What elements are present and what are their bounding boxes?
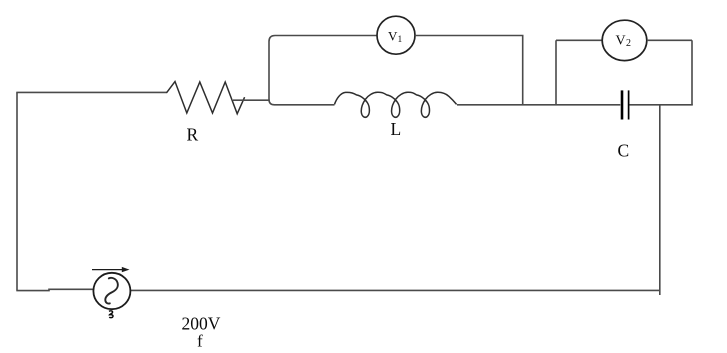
svg-text:R: R: [187, 125, 199, 145]
wire: V2 top right: [647, 39, 692, 41]
wire: V1 loop left vertical and top-left rounded corner to voltmeter: [269, 36, 377, 101]
current direction arrow above source: [92, 269, 125, 271]
capacitor C right plate: [628, 90, 630, 119]
svg-text:C: C: [618, 140, 630, 160]
wire: V2 loop left vertical: [555, 40, 557, 105]
capacitor C left plate: [621, 90, 624, 119]
wire: V1 top right and right vertical: [415, 36, 523, 105]
resistor R: [167, 82, 245, 114]
wire: bottom left segment: [16, 289, 93, 290]
svg-text:V: V: [616, 34, 626, 49]
wire: left vertical: [16, 92, 18, 290]
svg-text:1: 1: [398, 35, 403, 45]
wire: inductor to capacitor: [457, 104, 620, 106]
svg-text:200V: 200V: [182, 314, 221, 334]
svg-text:2: 2: [626, 38, 631, 49]
svg-text:f: f: [197, 332, 203, 351]
AC source circle: [93, 273, 130, 309]
svg-text:L: L: [391, 119, 402, 139]
wire: resistor output to node: [233, 99, 269, 101]
wire: right drop vertical: [659, 105, 661, 295]
wire: capacitor to V2 right vertical: [630, 104, 693, 106]
inductor L: [335, 92, 457, 117]
wire: V2 top left: [556, 39, 603, 41]
wire: top horizontal from left vertical to resistor: [16, 91, 167, 93]
AC source sine squiggle: [105, 278, 118, 304]
wire: V2 right vertical: [691, 40, 693, 105]
small squiggle symbol below source: [109, 311, 113, 318]
voltmeter V1: [377, 16, 415, 54]
wire: bottom right segment: [130, 289, 661, 291]
svg-text:V: V: [388, 28, 398, 43]
wire: rounded corner down to inductor baseline: [269, 100, 335, 105]
voltmeter V2: [602, 20, 647, 60]
